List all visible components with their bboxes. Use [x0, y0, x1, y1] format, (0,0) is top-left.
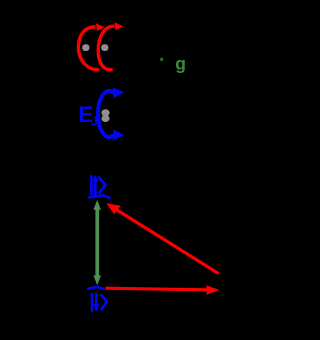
node: green speck left of g	[160, 58, 163, 61]
node: gray electron pair dots inside blue arc	[101, 109, 109, 122]
wire: red diagonal arrow into upper level	[106, 203, 218, 273]
node: gray virtual-level dash 2	[101, 44, 108, 51]
wire: red circulation arc 1 (left photon loop)	[78, 23, 104, 69]
svg-text:g: g	[175, 53, 186, 73]
node: ket label |down> for lower level	[91, 293, 107, 312]
wire: red horizontal arrow out of lower level	[106, 285, 220, 295]
node: gray virtual-level dash 1	[82, 44, 89, 51]
node: lower level dash (blue)	[87, 287, 104, 289]
wire: blue double-headed circulation arc	[98, 87, 124, 140]
node: upper level dash (blue)	[88, 195, 110, 198]
node: ket label |up> for upper level	[90, 175, 105, 196]
wire: red circulation arc 2 (right photon loop)	[98, 22, 123, 69]
wire: green double-headed arrow between levels	[93, 200, 101, 285]
